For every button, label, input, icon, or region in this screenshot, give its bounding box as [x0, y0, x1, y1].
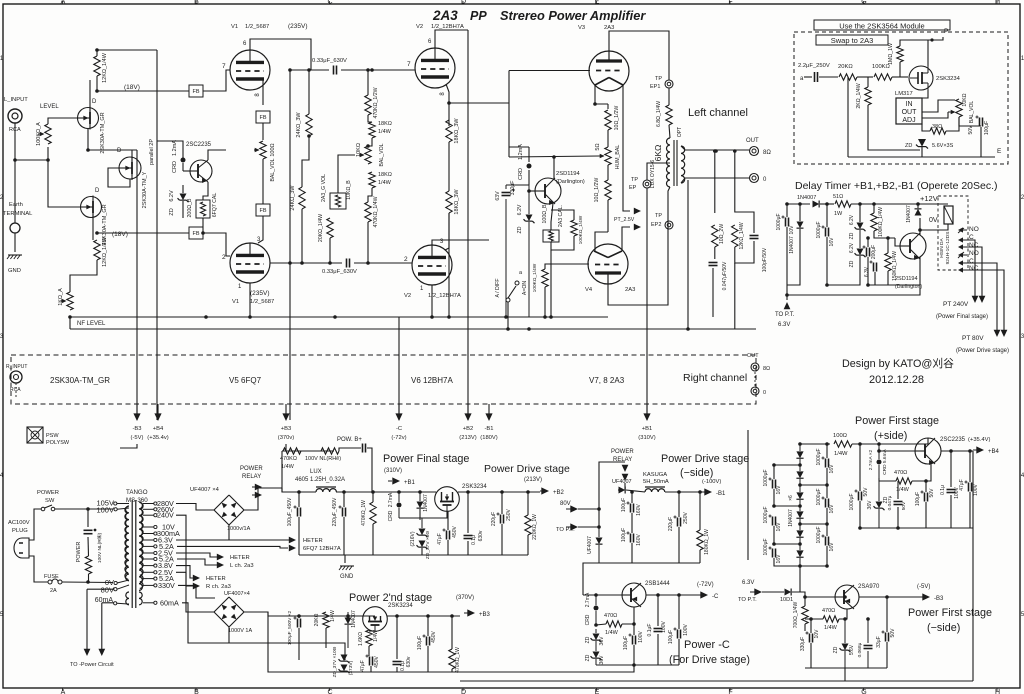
wire dt cap1 dn — [786, 227, 788, 295]
junction dots power rails — [297, 490, 702, 618]
svg-text:×6: ×6 — [788, 495, 794, 501]
wire fuse to 0V tap — [62, 581, 113, 584]
wire ladder bottom — [800, 565, 827, 567]
wire pc out — [646, 594, 697, 596]
rail x647 +B1 — [646, 188, 648, 420]
svg-text:ADJ: ADJ — [902, 117, 915, 124]
wire fs c01 dn — [950, 495, 952, 528]
wire b+ riser — [281, 451, 283, 492]
svg-text:450V: 450V — [374, 656, 380, 668]
polyswitch PSW — [27, 427, 70, 446]
zener chain ZD_37V x6 pf — [410, 529, 431, 560]
svg-text:36V: 36V — [599, 636, 605, 646]
svg-text:POW. B+: POW. B+ — [337, 437, 362, 443]
svg-text:1: 1 — [420, 286, 424, 292]
svg-text:(For Drive stage): (For Drive stage) — [669, 654, 750, 666]
label POWER RELAY pd — [611, 449, 634, 463]
svg-text:HETER: HETER — [303, 538, 323, 544]
svg-text:(+side): (+side) — [874, 430, 907, 442]
svg-text:5H_50mA: 5H_50mA — [643, 479, 669, 485]
wire l3 dn — [774, 558, 800, 566]
supply arrow +B1 — [638, 404, 655, 441]
svg-text:450V: 450V — [452, 526, 458, 538]
svg-text:+B1: +B1 — [642, 426, 652, 432]
pot 10KOhm BAL_VOL module — [948, 93, 975, 123]
svg-text:2SK3234: 2SK3234 — [462, 484, 487, 490]
wire fs rail — [852, 438, 928, 444]
svg-text:8Ω: 8Ω — [763, 150, 771, 156]
wire heavy vertical right — [747, 430, 749, 560]
svg-text:240V: 240V — [157, 511, 174, 520]
svg-text:CRD: CRD — [585, 614, 591, 625]
wire pf 01 dn — [467, 541, 469, 555]
wire cap2 to V2b grid — [354, 262, 412, 264]
wire q3 loop — [108, 168, 130, 187]
svg-text:(213V): (213V) — [459, 435, 476, 441]
wire dt cap2 up — [826, 204, 828, 227]
svg-text:2A: 2A — [50, 588, 57, 594]
svg-text:18KΩ_3W: 18KΩ_3W — [454, 189, 460, 215]
wire q5 base — [529, 190, 535, 192]
title — [432, 8, 646, 23]
capacitor 47uF 100V fs — [959, 479, 979, 496]
arrow TO P.T. dt — [775, 302, 795, 328]
svg-text:24KΩ_3W: 24KΩ_3W — [296, 112, 302, 138]
capacitor 0.1u 100V fs — [940, 485, 960, 499]
rail x399 -C — [398, 317, 400, 420]
svg-text:100V: 100V — [96, 506, 114, 515]
svg-text:450V: 450V — [431, 631, 437, 643]
svg-text:B: B — [194, 689, 199, 694]
wire pc rail up — [583, 563, 599, 595]
svg-text:(-100V): (-100V) — [702, 479, 721, 485]
svg-text:250V: 250V — [683, 512, 689, 524]
relay coil — [944, 206, 953, 224]
svg-text:V5 6FQ7: V5 6FQ7 — [229, 376, 262, 385]
zener ZD2 6.2V — [517, 185, 535, 317]
CRD D2 1.2mA right — [518, 144, 532, 185]
wire zobel A down — [712, 268, 714, 317]
svg-text:FB: FB — [192, 231, 199, 237]
wire q3 drain to rail — [132, 150, 137, 162]
wire 80V down arrow wire — [87, 588, 114, 590]
svg-text:6KΩ: 6KΩ — [653, 145, 663, 162]
ferrite bead FB2 — [95, 227, 205, 239]
svg-text:1KΩ_A: 1KΩ_A — [58, 288, 64, 306]
svg-text:D: D — [461, 0, 466, 6]
svg-text:TP: TP — [631, 177, 638, 183]
svg-text:0.1μ: 0.1μ — [940, 485, 946, 495]
svg-text:a: a — [800, 76, 804, 82]
CRD 5.6mA fs — [868, 444, 888, 478]
terminal OUT 0 — [750, 174, 768, 184]
capacitor 47uF 450V pf — [437, 526, 458, 545]
wire heter3b — [176, 572, 193, 586]
tx tap 80V — [101, 585, 129, 595]
wire pd c3 up — [678, 492, 680, 517]
svg-text:6.2V: 6.2V — [517, 204, 523, 215]
svg-text:ZD_37V ×10Θ: ZD_37V ×10Θ — [332, 646, 338, 677]
wire dt d2 dn — [787, 229, 800, 285]
svg-text:HSIN DA: HSIN DA — [939, 237, 945, 257]
label HETER R ch — [193, 575, 231, 590]
svg-text:2A3: 2A3 — [604, 25, 614, 31]
resistor 6.8Ohm_1/4W — [656, 101, 672, 127]
svg-text:6: 6 — [428, 39, 432, 45]
jfet Q1 2SK30A-TM_GR — [78, 99, 107, 154]
svg-text:100V: 100V — [683, 624, 689, 636]
wire mod pot bottom — [959, 117, 981, 126]
svg-text:100μF_450V: 100μF_450V — [287, 497, 293, 526]
wire crd feed — [509, 146, 529, 148]
svg-text:80V: 80V — [560, 501, 571, 507]
wire q5 emitter down — [551, 203, 553, 230]
svg-text:E: E — [997, 148, 1002, 155]
wire FB to V1 pin7 — [203, 70, 230, 91]
svg-text:100μF: 100μF — [915, 492, 921, 506]
svg-text:50V: 50V — [890, 628, 896, 638]
pot 10KOhm 2A3_G VOL — [321, 174, 352, 209]
svg-text:GND: GND — [8, 268, 21, 274]
svg-text:36V: 36V — [867, 500, 873, 510]
resistor 24KOhm_3W upper — [296, 112, 312, 138]
wire balpot wiper link — [338, 155, 355, 193]
wire V2a plate hook — [435, 30, 468, 48]
CRD 2.7mA pf — [388, 492, 422, 528]
wire mod drain — [928, 40, 932, 66]
capacitor 1000uF 50V fs — [849, 487, 869, 511]
wire pd ca up — [631, 492, 633, 503]
svg-text:100KΩ_1/4W: 100KΩ_1/4W — [578, 215, 584, 244]
wire 24k up — [308, 70, 310, 114]
supply arrow +B4 — [147, 404, 168, 441]
right channel dashed box — [11, 355, 756, 404]
wire pd r dn — [699, 550, 701, 563]
svg-text:10V: 10V — [814, 629, 820, 639]
svg-text:(-5V): (-5V) — [917, 584, 930, 590]
label TANGO MS-360 — [126, 489, 148, 504]
svg-text:0.1μF: 0.1μF — [647, 624, 653, 637]
wire grid leak down — [544, 287, 546, 317]
wire p2 c2 dn — [427, 646, 429, 672]
svg-text:V1: V1 — [231, 24, 238, 30]
svg-text:PLUG: PLUG — [12, 528, 28, 534]
transistor Q8 2SC2235 fs — [915, 437, 966, 465]
CRD 2.7mA pc — [585, 592, 599, 625]
wire bus b3 — [283, 444, 286, 451]
arrow TO PT pd — [556, 523, 578, 533]
svg-text:FB: FB — [259, 208, 266, 214]
svg-text:330V: 330V — [158, 581, 175, 590]
resistor 470Ohm 1/4W fs3 — [822, 608, 839, 631]
wire fs gnd rail — [860, 527, 973, 529]
svg-text:10Ω_1/2W: 10Ω_1/2W — [614, 106, 620, 131]
wire opt center tap — [647, 163, 670, 180]
wire fs c047 up — [897, 481, 899, 499]
svg-text:(18V): (18V) — [112, 231, 128, 238]
wire relay coil wire — [922, 203, 948, 205]
choke KASUGA — [645, 487, 665, 492]
svg-text:A / DIFF: A / DIFF — [495, 278, 501, 297]
wire dt 150k — [887, 238, 889, 253]
wire V4 filament left leg — [595, 232, 608, 251]
svg-text:Power -C: Power -C — [684, 639, 730, 651]
svg-text:12KΩ_1/4W: 12KΩ_1/4W — [102, 236, 108, 267]
svg-text:100μF_500V ×2: 100μF_500V ×2 — [287, 610, 293, 645]
svg-text:+B4: +B4 — [153, 426, 164, 432]
wire pc c1 dn — [633, 645, 635, 665]
capacitor 1000uF 16V r2 — [816, 488, 835, 513]
wire bridge2 down — [229, 643, 345, 660]
capacitor 100uF 50V fs — [915, 488, 935, 506]
label PT 240V — [936, 301, 988, 320]
wire dt cap1 — [786, 204, 788, 217]
resistor 20KOhm_1/4W — [318, 214, 333, 242]
diode UF4007 pd — [612, 479, 632, 494]
wire pd r up — [699, 492, 701, 530]
test point TP EP1 — [650, 76, 673, 90]
svg-text:Power Drive stage: Power Drive stage — [661, 453, 749, 465]
svg-text:Use the 2SK3564 Module: Use the 2SK3564 Module — [839, 22, 924, 31]
wire bottom bus a — [120, 444, 137, 448]
zener ZD 36V pc b — [585, 641, 605, 665]
resistor 20KOhm module — [838, 64, 857, 80]
wire p2 out — [387, 615, 460, 617]
transistor Q7 2SB1444 — [622, 581, 670, 607]
wire V3 filament right leg — [623, 85, 630, 211]
wire q5 collector — [553, 157, 555, 180]
wire cal bottom — [551, 236, 574, 250]
svg-text:G: G — [861, 0, 866, 6]
wire mod r2 to gate — [892, 76, 908, 78]
wire q5 branch to rail — [550, 250, 552, 317]
wire cathode chain bottom — [607, 200, 609, 232]
wire 18k junction right — [368, 138, 372, 146]
wire follower riser x509 — [508, 71, 510, 158]
svg-text:Earth: Earth — [9, 202, 23, 208]
label design — [842, 357, 954, 386]
label Power Drive stage -side — [661, 453, 749, 479]
wire p2 fet gate — [369, 630, 375, 632]
wire pot bottom down — [202, 218, 204, 233]
wire fs2 c33 dn — [886, 642, 888, 668]
wire mod 1m bottom — [899, 62, 901, 77]
svg-text:(180V): (180V) — [480, 435, 497, 441]
wire sw down — [507, 302, 509, 329]
svg-text:V2: V2 — [416, 24, 423, 30]
svg-text:L ch. 2a3: L ch. 2a3 — [230, 563, 254, 569]
potentiometer 1KOhm_A NF LEVEL — [58, 288, 106, 327]
wire r470k dn — [372, 524, 374, 555]
svg-text:1.2mA: 1.2mA — [172, 140, 178, 156]
earth terminal — [3, 202, 33, 233]
svg-text:6.3V: 6.3V — [864, 266, 870, 277]
svg-text:LM317: LM317 — [895, 91, 913, 97]
svg-text:6FQ7 12BH7A: 6FQ7 12BH7A — [303, 546, 341, 552]
arrows power relay — [252, 484, 262, 499]
zener ZD 6.2V input stage — [169, 185, 189, 218]
wire crd to base — [183, 170, 190, 172]
capacitor 100uF 160V pd a — [621, 498, 642, 516]
capacitor 0.047u 50V fs — [887, 495, 907, 510]
wire fs c047 dn — [897, 507, 899, 528]
svg-text:16V: 16V — [829, 237, 835, 247]
wire mod source down — [922, 90, 928, 98]
svg-text:G: G — [861, 689, 866, 694]
svg-text:D: D — [461, 689, 466, 694]
svg-text:1N4007: 1N4007 — [351, 610, 357, 628]
svg-text:TP: TP — [655, 213, 662, 219]
svg-text:V1: V1 — [232, 299, 239, 305]
svg-text:16V: 16V — [829, 504, 835, 514]
wire choke out — [336, 491, 436, 493]
wire fs2 700 dn — [804, 624, 806, 631]
svg-text:1MΩ_1W: 1MΩ_1W — [888, 43, 894, 65]
resistor 100KOhm_1/4W dt — [871, 207, 884, 237]
rail x137 -B3 — [136, 150, 138, 420]
diode 10D1 — [780, 589, 793, 604]
wire zobel branch A — [714, 151, 716, 213]
wire pd r up — [527, 492, 529, 515]
wire dt zd dn — [827, 256, 860, 285]
tube V2b 1/2_12BH7A — [404, 239, 461, 299]
wire fs c01 up — [950, 451, 952, 487]
resistor 100KOhm module — [872, 64, 892, 80]
svg-text:(−side): (−side) — [680, 467, 713, 479]
svg-text:0.33μF_630V: 0.33μF_630V — [312, 58, 347, 64]
wire drain up to 12K resistor — [89, 80, 91, 112]
svg-text:36V: 36V — [599, 655, 605, 665]
wire pd box left — [578, 509, 599, 527]
wire hum chain top — [607, 104, 609, 109]
svg-text:(-72V): (-72V) — [697, 582, 714, 588]
tube V1b 1/2_5687 — [222, 237, 274, 305]
svg-text:(Darlington): (Darlington) — [556, 179, 585, 185]
svg-text:EP2: EP2 — [651, 222, 661, 228]
svg-text:16V: 16V — [776, 522, 782, 532]
svg-text:0.047μF/50V: 0.047μF/50V — [722, 261, 728, 290]
svg-text:MS-360: MS-360 — [126, 497, 148, 504]
wire dt q base — [895, 238, 900, 246]
svg-text:parallel 2P: parallel 2P — [149, 139, 155, 165]
tx tap 105V — [96, 499, 129, 508]
jfet Q2 2SK30A-TM_GR lower — [81, 188, 109, 246]
junction filament left — [593, 102, 597, 106]
wire sw to 100V tap — [55, 508, 113, 510]
svg-text:(310V): (310V) — [638, 435, 655, 441]
wire fs coll out — [941, 450, 973, 452]
wire mod pot wiper — [922, 112, 948, 118]
svg-text:GND: GND — [340, 574, 354, 580]
svg-text:16V: 16V — [829, 464, 835, 474]
capacitor 200uF dt — [863, 245, 878, 259]
svg-text:A: A — [61, 689, 66, 694]
svg-text:100V: 100V — [638, 631, 644, 643]
svg-text:4605 1.25H_0.32A: 4605 1.25H_0.32A — [295, 477, 345, 483]
svg-text:HETER: HETER — [230, 555, 250, 561]
svg-text:16V: 16V — [829, 542, 835, 552]
svg-text:BAL_VOL: BAL_VOL — [969, 101, 975, 123]
svg-text:(370v): (370v) — [278, 435, 295, 441]
svg-text:8: 8 — [255, 93, 261, 97]
svg-text:10KΩ: 10KΩ — [356, 143, 362, 157]
wire plug top to sw — [29, 509, 41, 540]
svg-text:12KΩ_1/4W: 12KΩ_1/4W — [739, 222, 745, 249]
svg-text:L_INPUT: L_INPUT — [4, 97, 28, 103]
RCA jack R_INPUT — [6, 364, 27, 398]
svg-text:470KΩ_1W: 470KΩ_1W — [455, 647, 461, 673]
wire 10d1 to 700 — [792, 592, 805, 606]
wire mod 2k top — [867, 77, 869, 87]
supply arrow -B3 — [131, 404, 144, 441]
svg-text:10Ω_2W: 10Ω_2W — [719, 224, 725, 244]
bridge rectifier 1 — [214, 495, 251, 532]
capacitor 100uF_450V pf — [287, 497, 301, 526]
tx tap 0V — [105, 578, 129, 587]
svg-text:RELAY: RELAY — [242, 474, 261, 480]
wire dt d2 — [799, 204, 801, 221]
wire 18k3w join — [448, 142, 450, 191]
svg-text:8: 8 — [440, 92, 446, 96]
wire 470k-18k — [368, 115, 372, 122]
resistor 10Ohm_1/2W lower — [594, 178, 611, 203]
svg-text:NF LEVEL: NF LEVEL — [77, 321, 106, 327]
svg-text:a: a — [519, 270, 523, 276]
test point TP EP — [629, 177, 651, 191]
svg-text:10V: 10V — [789, 225, 795, 235]
svg-text:1/2_5687: 1/2_5687 — [245, 24, 269, 30]
junction filter bottom — [86, 580, 90, 584]
svg-text:1000μF: 1000μF — [763, 469, 769, 486]
svg-text:ZD: ZD — [849, 260, 855, 267]
label HETER L ch — [217, 554, 254, 569]
svg-text:100KΩ_1/4W: 100KΩ_1/4W — [878, 207, 884, 237]
svg-text:2SC2235: 2SC2235 — [940, 437, 966, 443]
svg-text:6.3V: 6.3V — [778, 322, 790, 328]
ferrite bead FB1 — [95, 85, 203, 97]
svg-text:20KΩ: 20KΩ — [838, 64, 853, 70]
svg-text:220KΩ_1W: 220KΩ_1W — [532, 514, 538, 540]
wire fs c up — [859, 444, 861, 491]
pot 200Ohm_B 6FQ7 CAL — [187, 193, 218, 218]
svg-text:NC: NC — [969, 242, 979, 249]
wire earth tap — [14, 160, 16, 223]
svg-text:CRD: CRD — [172, 161, 178, 173]
zener ZD_37V x10 p2 — [332, 646, 354, 677]
wire dt d to r — [820, 203, 834, 205]
svg-text:1W: 1W — [834, 211, 843, 217]
svg-text:100μF: 100μF — [621, 528, 627, 542]
svg-text:TERMINAL: TERMINAL — [3, 211, 33, 217]
svg-text:ZD: ZD — [585, 636, 591, 643]
wire cathode chain mid2 — [607, 165, 609, 180]
svg-text:FB: FB — [192, 89, 199, 95]
wire 470k up — [367, 70, 369, 95]
capacitor 100uF 100V pc2 — [668, 624, 689, 645]
svg-text:1: 1 — [238, 284, 242, 290]
svg-text:100V: 100V — [661, 621, 667, 633]
wire 20k bottom — [329, 238, 331, 263]
zener ZD 6.2V dt b — [849, 230, 866, 267]
svg-text:200Ω_B: 200Ω_B — [187, 198, 193, 217]
wire powb wire — [282, 450, 334, 452]
wire r1 up — [826, 444, 828, 458]
resistor 470KOhm_1W pf — [361, 500, 376, 526]
svg-text:0.33μF_630V: 0.33μF_630V — [322, 269, 357, 275]
svg-text:D: D — [117, 148, 122, 154]
wire pc c3 dn — [678, 639, 680, 665]
label Power First stage -side — [908, 607, 992, 634]
